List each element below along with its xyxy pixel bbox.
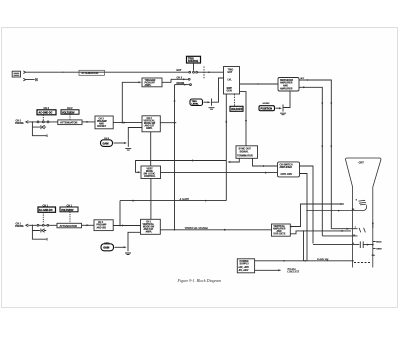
- svg-text:GAIN: GAIN: [103, 247, 109, 250]
- svg-text:SOURCE: SOURCE: [188, 60, 199, 63]
- EXT input chevron: [23, 71, 25, 74]
- CH 1 gain control: [101, 243, 114, 251]
- svg-text:PROBE: PROBE: [15, 225, 24, 228]
- svg-text:BIAS: BIAS: [376, 241, 382, 244]
- CH 2 vertical mode box: [142, 116, 160, 132]
- svg-text:LEVEL: LEVEL: [192, 103, 200, 105]
- dashed switch line: [203, 67, 205, 80]
- upper deflection plate glyph: [358, 200, 366, 205]
- svg-text:CRTL DRV: CRTL DRV: [281, 174, 293, 176]
- svg-text:AMPL: AMPL: [146, 127, 153, 130]
- wire CH1 input: [28, 224, 57, 226]
- svg-text:PREAMP: PREAMP: [97, 120, 107, 123]
- CH 1 attenuator box: [57, 223, 82, 228]
- svg-text:GEN: GEN: [227, 90, 232, 93]
- wire preamp to vert switch: [113, 122, 142, 124]
- wire trig to sync out: [240, 92, 247, 146]
- vertical link VERT box to CH1 vert: [150, 179, 152, 220]
- CH 2 gain control: [101, 138, 113, 146]
- CRT envelope: [346, 158, 381, 268]
- CH 1 preamp box: [94, 220, 113, 231]
- wire to trigger box: [198, 71, 224, 73]
- svg-text:OFFSET: OFFSET: [97, 126, 107, 128]
- CRT filament dashed: [354, 262, 372, 264]
- wire horiz output A: [299, 80, 331, 229]
- POWER SUPPLY box: [237, 259, 254, 273]
- svg-text:AMPLIFIER: AMPLIFIER: [280, 166, 293, 169]
- wire vertical signal: [160, 229, 271, 231]
- TRIG LEVEL control: [190, 99, 203, 106]
- wire cathode line with capacitor: [313, 241, 373, 248]
- wire sync out to horiz box: [253, 158, 278, 166]
- svg-text:POSITION: POSITION: [261, 108, 273, 111]
- CH2 input chevron: [26, 121, 29, 124]
- HOLDOFF control box: [230, 106, 243, 111]
- svg-text:AC-GND-DC: AC-GND-DC: [39, 112, 53, 115]
- wire trig output to horiz amp: [240, 83, 279, 85]
- wire horiz driver out 2: [300, 174, 308, 261]
- svg-text:CIRCUITS: CIRCUITS: [287, 271, 299, 274]
- lower deflection plate glyph: [359, 228, 365, 233]
- pot bar: [211, 99, 213, 106]
- wire pickoff output: [162, 79, 171, 82]
- CH2 AC coupling cap branch: [32, 122, 46, 136]
- wire horiz plate C: [322, 235, 357, 237]
- svg-text:CONTROL: CONTROL: [144, 176, 156, 178]
- svg-text:AND: AND: [283, 84, 288, 87]
- CH 2 volts/div control box: [61, 107, 79, 119]
- svg-text:AMPLIFIER: AMPLIFIER: [280, 87, 293, 90]
- svg-text:AMPL: AMPL: [145, 84, 152, 87]
- CH 2 coupling control box: [37, 107, 56, 120]
- wire sync out left: [229, 158, 239, 162]
- wire chop blanking from sweep: [136, 161, 227, 173]
- wire vert amp out lower plate: [290, 231, 351, 234]
- vertical output amplifier box: [272, 224, 291, 236]
- wire CH2 input: [28, 121, 58, 123]
- svg-text:GRID: GRID: [376, 248, 382, 250]
- svg-text:Figure 9-1. Block Diagram: Figure 9-1. Block Diagram: [177, 278, 222, 283]
- CRT base pins: [373, 242, 376, 249]
- sweep out / horiz driver box: [278, 162, 300, 177]
- sweep/horiz amplifier box: [278, 78, 299, 92]
- holdoff dashed link: [234, 94, 236, 106]
- svg-text:EXT: EXT: [177, 69, 182, 72]
- svg-text:Z-axis sig: Z-axis sig: [317, 257, 329, 261]
- wiper wire to trig box: [212, 78, 224, 102]
- wire trig internal down to CH1 pickoff: [225, 94, 227, 201]
- svg-text:HOLDOFF: HOLDOFF: [231, 108, 243, 111]
- svg-text:SUPPLY: SUPPLY: [240, 263, 250, 266]
- wire pickoff input: [122, 82, 139, 122]
- svg-text:AND: AND: [99, 123, 104, 126]
- ground: [209, 108, 215, 110]
- svg-text:AMPLIFIER: AMPLIFIER: [280, 81, 293, 84]
- svg-text:ATTENUATOR: ATTENUATOR: [60, 121, 78, 125]
- svg-text:AND SIG: AND SIG: [97, 226, 107, 229]
- svg-text:ATTENUATOR: ATTENUATOR: [82, 72, 99, 75]
- svg-text:SIGNAL: SIGNAL: [240, 151, 250, 154]
- wire CH1 internal trigger pickoff: [119, 201, 121, 226]
- wire atten to preamp: [82, 224, 95, 226]
- EXT attenuator box: [79, 70, 105, 75]
- svg-text:-8V, +90V: -8V, +90V: [238, 270, 249, 272]
- wire preamp to vert switch: [113, 225, 140, 227]
- CH 1 coupling control box: [38, 205, 56, 224]
- vertical link CH2 vert to VERT box: [150, 132, 152, 166]
- wire CH2 trigger stub: [171, 78, 188, 80]
- TRIGGER PICKOFF box: [142, 78, 162, 87]
- wire vert amp out upper: [290, 204, 344, 227]
- wire atten to preamp: [82, 121, 95, 123]
- svg-text:CRT: CRT: [359, 160, 365, 164]
- EXT INPUT connector box: [12, 71, 20, 77]
- EXT lower stub chevron: [23, 78, 25, 81]
- svg-text:AC-GND-DC: AC-GND-DC: [39, 209, 53, 212]
- CH1 AC coupling cap branch: [32, 225, 46, 239]
- wire z-axis line: [255, 260, 353, 262]
- CH 1 vertical mode box: [141, 219, 161, 234]
- wire stub with capacitor: [26, 78, 38, 81]
- svg-text:PROBE: PROBE: [15, 122, 24, 125]
- wire to all circuits: [255, 269, 280, 271]
- CH 1 volts/div control box: [60, 205, 78, 224]
- wire vert amp branch to z line: [303, 231, 305, 261]
- POSITION control: [259, 103, 275, 111]
- wire horiz driver out 1: [300, 166, 314, 244]
- wire CH2 vert out: [160, 122, 176, 124]
- wire NORM trigger stub: [175, 84, 190, 86]
- svg-text:+8V, +30V: +8V, +30V: [238, 267, 249, 269]
- svg-text:DVR CKTS: DVR CKTS: [274, 234, 286, 236]
- svg-text:VOLTS/DIV: VOLTS/DIV: [62, 111, 75, 114]
- VERT mode switch box: [141, 166, 161, 179]
- svg-text:GAIN: GAIN: [103, 142, 109, 145]
- SYNC OUT box: [236, 146, 258, 159]
- trigger generator box U-trig: [224, 67, 240, 95]
- CH 2 attenuator box: [58, 120, 82, 125]
- svg-text:LVL: LVL: [228, 79, 233, 82]
- svg-text:PREAMP: PREAMP: [97, 224, 107, 227]
- svg-text:VERTICAL SIGNAL: VERTICAL SIGNAL: [185, 226, 209, 230]
- trigger source switch contacts: [189, 71, 191, 73]
- svg-text:AMPL: AMPL: [146, 230, 153, 233]
- svg-text:ATTENUATOR: ATTENUATOR: [60, 224, 78, 228]
- TRIG source control box: [187, 56, 201, 71]
- wire EXT trigger line: [26, 71, 189, 73]
- wire horiz output B: [299, 87, 322, 236]
- CH1 input chevron: [26, 224, 29, 227]
- arrow to pot: [204, 101, 209, 103]
- svg-text:A GATE: A GATE: [179, 197, 190, 201]
- wire NORM vertical from vertical signal: [174, 85, 176, 230]
- svg-text:HORIZ: HORIZ: [263, 103, 270, 105]
- svg-text:VOLTS/DIV: VOLTS/DIV: [61, 209, 74, 212]
- CH 2 preamp box: [95, 116, 113, 129]
- svg-text:EXT: EXT: [228, 71, 233, 74]
- svg-text:TERMINATOR: TERMINATOR: [237, 154, 253, 157]
- wire horiz plate B: [331, 228, 357, 230]
- wire VERT box output to horiz box: [161, 172, 278, 174]
